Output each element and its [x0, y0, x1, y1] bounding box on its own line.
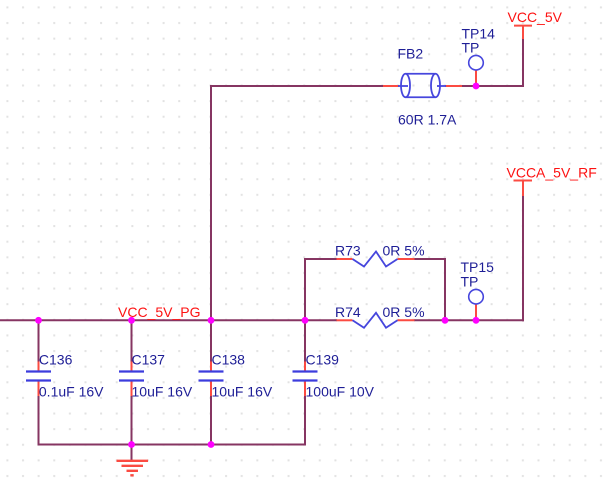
- svg-text:60R 1.7A: 60R 1.7A: [398, 112, 457, 128]
- wire main bus right: [414, 319, 524, 321]
- wire C138 top: [210, 319, 212, 362]
- wire C137 bottom: [131, 396, 133, 446]
- junction C138 bottom: [208, 441, 215, 448]
- svg-text:C136: C136: [39, 352, 73, 368]
- capacitor C136: [26, 352, 104, 400]
- svg-text:C137: C137: [132, 352, 166, 368]
- wire C139 bottom: [304, 396, 306, 446]
- wire VCC_5V vertical drop: [522, 39, 524, 88]
- junction TP15 node: [473, 317, 480, 324]
- svg-text:C139: C139: [306, 352, 340, 368]
- svg-text:0R 5%: 0R 5%: [383, 243, 425, 259]
- junction C138 bus: [208, 317, 215, 324]
- ferrite bead FB2: [383, 45, 462, 127]
- svg-text:10uF 16V: 10uF 16V: [212, 384, 273, 400]
- wire right leg x=445: [444, 258, 446, 321]
- wire C136 top: [38, 319, 40, 362]
- svg-text:R74: R74: [335, 304, 361, 320]
- resistor R73: [335, 243, 425, 267]
- power symbol VCCA_5V_RF: [514, 181, 533, 197]
- svg-text:TP: TP: [462, 39, 480, 55]
- wire C139 top: [304, 319, 306, 362]
- wire bottom bus: [38, 444, 307, 446]
- wire top horizontal right of FB2: [461, 85, 524, 87]
- svg-text:VCC_5V: VCC_5V: [508, 9, 563, 25]
- wire main bus left: [0, 319, 337, 321]
- wire C138 bottom: [210, 396, 212, 446]
- test point TP14: [462, 25, 496, 86]
- capacitor C139: [293, 352, 375, 400]
- svg-text:TP: TP: [461, 273, 479, 289]
- capacitor C138: [199, 352, 273, 400]
- wire top horizontal left of FB2: [211, 85, 384, 87]
- wire long vertical at x=211: [210, 85, 212, 321]
- wire left leg x=305: [304, 258, 306, 321]
- junction right leg bus: [442, 317, 449, 324]
- junction C136 bus: [35, 317, 42, 324]
- svg-text:10uF 16V: 10uF 16V: [132, 384, 193, 400]
- junction C137 bus: [128, 317, 135, 324]
- wire C137 top: [131, 319, 133, 362]
- svg-text:R73: R73: [335, 243, 361, 259]
- svg-text:C138: C138: [212, 352, 246, 368]
- svg-text:0.1uF 16V: 0.1uF 16V: [39, 384, 104, 400]
- junction TP14 node: [473, 83, 480, 90]
- wire VCCA_5V_RF vertical drop: [522, 195, 524, 321]
- svg-text:100uF 10V: 100uF 10V: [306, 384, 375, 400]
- svg-text:FB2: FB2: [398, 45, 424, 61]
- ground: [117, 461, 149, 476]
- resistor R74: [335, 304, 425, 328]
- capacitor C137: [119, 352, 193, 400]
- svg-text:0R 5%: 0R 5%: [383, 304, 425, 320]
- power symbol VCC_5V: [514, 26, 532, 39]
- wire R73 row left: [304, 258, 337, 260]
- wire R73 row right: [414, 258, 446, 260]
- junction ground node: [128, 441, 135, 448]
- svg-text:VCCA_5V_RF: VCCA_5V_RF: [507, 164, 597, 180]
- junction C139 bus: [302, 317, 309, 324]
- wire ground stub: [131, 445, 133, 461]
- test point TP15: [461, 259, 495, 320]
- wire C136 bottom: [38, 396, 40, 446]
